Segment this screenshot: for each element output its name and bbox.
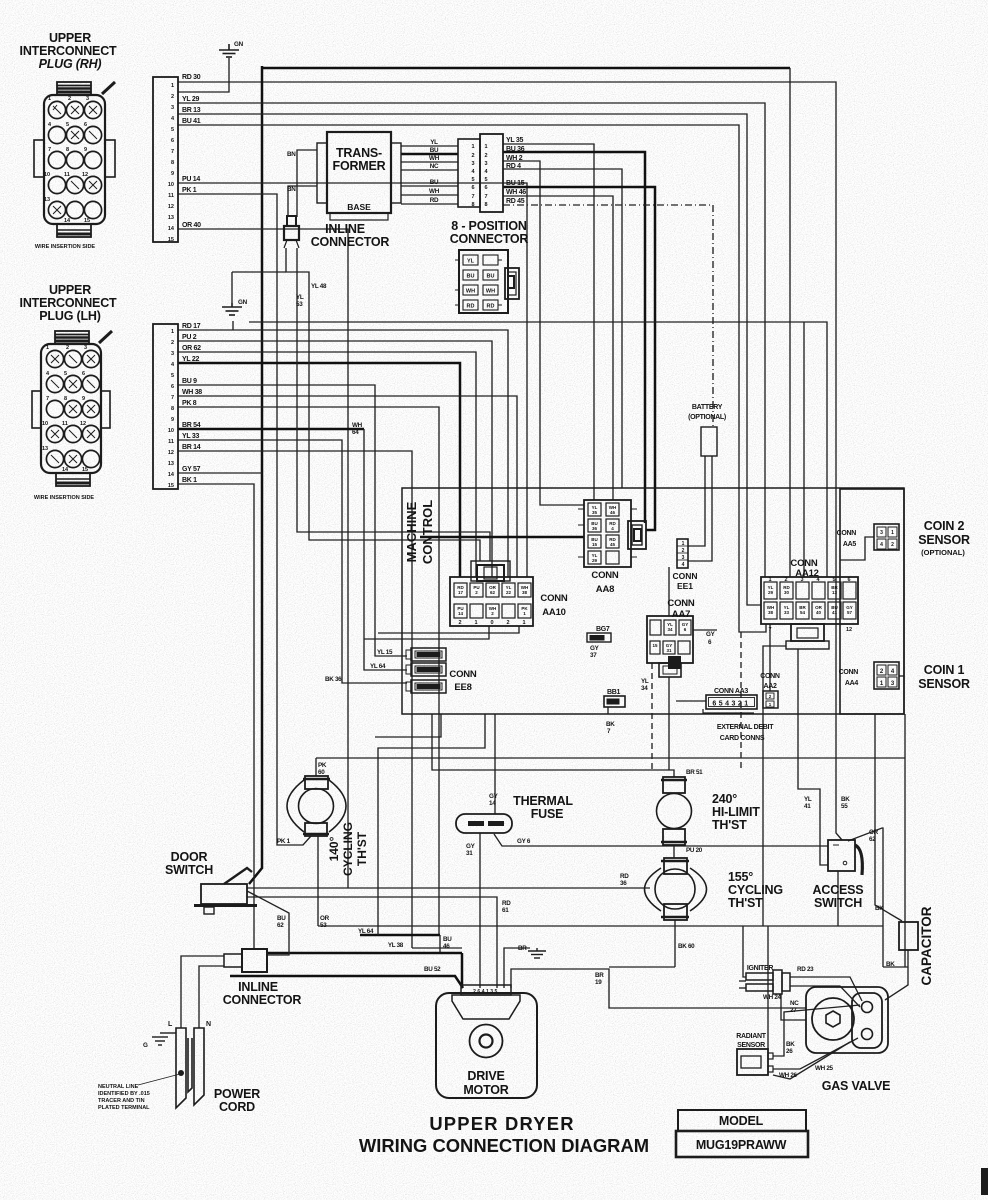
svg-text:2: 2 — [891, 542, 894, 548]
svg-text:EE1: EE1 — [677, 581, 693, 591]
plug LH contact marks — [51, 355, 95, 463]
svg-text:2: 2 — [471, 153, 474, 159]
svg-text:11: 11 — [62, 421, 68, 427]
thermostat 140 cycling — [287, 776, 346, 836]
svg-text:WH 46: WH 46 — [506, 189, 526, 196]
svg-text:INLINE: INLINE — [238, 980, 278, 994]
wire ground stub LH — [232, 321, 234, 330]
svg-text:UPPER: UPPER — [49, 31, 91, 45]
svg-text:64: 64 — [352, 429, 359, 436]
svg-text:7: 7 — [46, 396, 49, 402]
svg-text:14: 14 — [64, 218, 71, 224]
svg-text:BK 60: BK 60 — [678, 943, 695, 950]
svg-text:654321: 654321 — [712, 701, 750, 708]
wire BK55 — [836, 714, 842, 840]
wire xfmr YL — [401, 145, 458, 147]
svg-text:2: 2 — [68, 96, 71, 102]
plug RH top tab — [57, 82, 91, 95]
connector EE8 bar1 — [406, 648, 446, 661]
black mark right edge — [981, 1168, 988, 1195]
wire PK1 — [178, 194, 311, 845]
svg-text:1: 1 — [474, 620, 477, 626]
neutral note — [98, 1084, 150, 1111]
svg-text:(OPTIONAL): (OPTIONAL) — [688, 414, 726, 421]
svg-text:13: 13 — [42, 446, 48, 452]
wire radiant B — [773, 1038, 858, 1069]
connector AA8 body — [584, 500, 631, 567]
svg-text:8: 8 — [171, 160, 174, 166]
wire H758 — [316, 757, 905, 759]
svg-text:AA5: AA5 — [843, 541, 857, 548]
svg-text:GN: GN — [234, 41, 244, 48]
svg-text:WIRE INSERTION SIDE: WIRE INSERTION SIDE — [35, 244, 96, 250]
power cord neutral dot — [178, 1070, 184, 1076]
wire AA12 latch left chain — [763, 646, 786, 926]
svg-text:BU: BU — [430, 147, 439, 154]
svg-text:CONN: CONN — [591, 570, 619, 581]
svg-text:GY: GY — [466, 843, 476, 850]
ground top — [219, 44, 239, 57]
svg-text:NC: NC — [790, 1000, 799, 1007]
AA7 cells — [650, 620, 691, 654]
8pos detail side ticks — [455, 260, 502, 305]
svg-text:0: 0 — [490, 620, 493, 626]
8pos pin digits — [471, 144, 488, 208]
svg-text:29: 29 — [592, 558, 598, 563]
svg-text:GY: GY — [590, 645, 600, 652]
svg-text:PK 1: PK 1 — [277, 838, 291, 845]
svg-text:SWITCH: SWITCH — [814, 896, 862, 910]
plug RH body — [44, 95, 105, 224]
AA10 cells row1 — [454, 583, 531, 597]
svg-text:EXTERNAL DEBIT: EXTERNAL DEBIT — [717, 724, 774, 731]
wire NC27 — [781, 994, 806, 1020]
svg-text:GY: GY — [706, 631, 716, 638]
svg-text:CARD CONNS: CARD CONNS — [720, 735, 765, 742]
svg-text:YL: YL — [641, 678, 649, 685]
svg-text:BN: BN — [287, 151, 296, 158]
svg-text:38: 38 — [768, 610, 774, 615]
svg-text:TH'ST: TH'ST — [728, 896, 763, 910]
wire OR62 — [178, 352, 476, 577]
plug RH left ear — [34, 140, 44, 177]
svg-text:4: 4 — [682, 562, 685, 568]
wire BR19 — [511, 969, 806, 1008]
svg-text:41: 41 — [832, 610, 838, 615]
AA7 black key — [668, 656, 681, 669]
svg-text:BU: BU — [487, 274, 495, 280]
AA8 cells — [588, 503, 619, 564]
svg-text:AA8: AA8 — [596, 584, 614, 595]
plug RH locator pin — [102, 82, 115, 94]
svg-text:CONN: CONN — [540, 593, 568, 604]
svg-text:GY 57: GY 57 — [182, 466, 201, 473]
svg-text:19: 19 — [595, 979, 602, 986]
svg-text:41: 41 — [804, 803, 811, 810]
svg-text:11: 11 — [168, 193, 174, 199]
svg-text:7: 7 — [48, 147, 51, 153]
svg-text:YL 15: YL 15 — [377, 649, 393, 656]
svg-text:7: 7 — [484, 194, 487, 200]
svg-text:22: 22 — [506, 590, 512, 595]
svg-text:YL: YL — [430, 139, 438, 146]
svg-text:5: 5 — [484, 177, 487, 183]
svg-text:6: 6 — [471, 185, 474, 191]
wire H897 — [247, 897, 497, 988]
svg-text:BU: BU — [277, 915, 286, 922]
connector AA12 body — [761, 577, 858, 624]
svg-text:54: 54 — [800, 610, 806, 615]
AA12 cells row1 — [764, 582, 856, 599]
svg-text:38: 38 — [522, 590, 528, 595]
svg-text:1: 1 — [171, 329, 174, 335]
svg-text:8: 8 — [471, 202, 474, 208]
svg-text:BU 36: BU 36 — [506, 146, 525, 153]
inline connector top body — [284, 216, 299, 248]
wire xfmr BU — [401, 153, 458, 156]
svg-text:12: 12 — [80, 421, 86, 427]
svg-text:1: 1 — [471, 144, 474, 150]
svg-text:INTERCONNECT: INTERCONNECT — [20, 44, 117, 58]
wire WH46 — [503, 196, 613, 500]
svg-text:OR 62: OR 62 — [182, 345, 201, 352]
gas valve body — [806, 987, 888, 1053]
svg-text:IGNITER: IGNITER — [747, 965, 774, 972]
wire PU2 — [178, 341, 492, 577]
svg-text:PK 1: PK 1 — [182, 187, 197, 194]
svg-text:30: 30 — [784, 590, 790, 595]
wire igniter B — [739, 980, 746, 982]
power cord blade L — [176, 1028, 204, 1108]
wire H926 — [318, 925, 883, 927]
svg-text:8: 8 — [64, 396, 67, 402]
svg-text:RD 4: RD 4 — [506, 163, 521, 170]
svg-text:WH: WH — [486, 289, 495, 295]
svg-text:BR: BR — [518, 945, 527, 952]
svg-text:34: 34 — [667, 627, 673, 632]
svg-text:15: 15 — [168, 483, 174, 489]
svg-text:10: 10 — [168, 182, 174, 188]
svg-text:BK 36: BK 36 — [325, 676, 342, 683]
svg-text:14: 14 — [489, 800, 496, 807]
svg-text:264135: 264135 — [473, 989, 499, 995]
svg-text:BU 9: BU 9 — [182, 378, 197, 385]
AA7 cell marks — [652, 622, 688, 653]
gas valve coil — [812, 998, 854, 1040]
svg-text:BR 13: BR 13 — [182, 107, 201, 114]
svg-text:46: 46 — [443, 943, 450, 950]
svg-text:14: 14 — [62, 467, 69, 473]
svg-text:15: 15 — [652, 643, 658, 648]
svg-text:COIN 2: COIN 2 — [924, 519, 965, 533]
label upper interconnect plug LH — [20, 283, 117, 323]
svg-text:BK: BK — [606, 721, 615, 728]
wire BK junction — [883, 966, 908, 968]
svg-text:POWER: POWER — [214, 1087, 260, 1101]
wire cord A — [181, 956, 224, 1028]
svg-text:TRACER AND TIN: TRACER AND TIN — [98, 1098, 145, 1104]
wire dashed ign — [740, 632, 742, 770]
machine control box — [402, 488, 904, 714]
MACHINE CONTROL — [325, 404, 970, 742]
transformer T1 body — [327, 132, 391, 213]
svg-text:FORMER: FORMER — [333, 159, 386, 173]
svg-text:15: 15 — [592, 542, 598, 547]
plug LH body — [41, 344, 101, 473]
wire xfmr BU2 — [401, 185, 458, 187]
svg-text:2: 2 — [682, 548, 685, 554]
svg-text:5: 5 — [171, 127, 174, 133]
svg-text:9: 9 — [171, 171, 174, 177]
wire xfmr WH — [401, 161, 458, 163]
plug RH pin digits — [44, 96, 90, 224]
svg-text:5: 5 — [171, 373, 174, 379]
svg-text:2: 2 — [484, 153, 487, 159]
svg-text:BR 54: BR 54 — [182, 422, 201, 429]
AA8 right latch — [628, 521, 646, 549]
strip LH wire labels — [182, 323, 202, 484]
connector EE8 bar2 — [406, 663, 446, 676]
svg-text:BU 15: BU 15 — [506, 180, 525, 187]
wire AA4 stub — [899, 675, 904, 677]
svg-text:1: 1 — [522, 620, 525, 626]
wire YL33 — [178, 440, 407, 683]
plug RH bottom tab — [57, 224, 91, 237]
wire YL29 — [178, 103, 765, 577]
AA7 bottom latch — [659, 663, 681, 677]
terminal strip LH — [153, 324, 178, 489]
svg-text:CONN: CONN — [839, 669, 859, 676]
svg-text:BN: BN — [287, 186, 296, 193]
svg-text:3: 3 — [484, 161, 487, 167]
access switch — [828, 840, 862, 875]
connector 8pos right shell — [480, 134, 503, 212]
svg-text:YL: YL — [467, 259, 475, 265]
thermal fuse body — [456, 814, 512, 833]
motor ground — [528, 948, 546, 958]
thermostat 240 hi-limit — [657, 777, 692, 845]
plug LH left ear — [32, 391, 41, 428]
svg-text:7: 7 — [768, 627, 771, 633]
svg-text:CONN: CONN — [760, 673, 780, 680]
svg-text:SENSOR: SENSOR — [918, 533, 970, 547]
svg-text:SENSOR: SENSOR — [737, 1042, 765, 1049]
wire RD4 — [503, 169, 622, 488]
svg-text:26: 26 — [786, 1048, 793, 1055]
svg-text:IDENTIFIED BY .015: IDENTIFIED BY .015 — [98, 1091, 150, 1097]
svg-text:CORD: CORD — [219, 1100, 255, 1114]
wire AA8 left bold — [420, 536, 584, 539]
svg-text:11: 11 — [64, 172, 70, 178]
svg-text:INLINE: INLINE — [325, 222, 365, 236]
svg-text:RD: RD — [430, 197, 439, 204]
svg-text:6: 6 — [847, 577, 850, 583]
svg-text:TH'ST: TH'ST — [712, 818, 747, 832]
svg-text:DOOR: DOOR — [171, 850, 208, 864]
svg-text:GN: GN — [238, 299, 248, 306]
AA10 cells row2 — [454, 604, 531, 618]
svg-text:53: 53 — [296, 301, 303, 308]
wire inline down A — [286, 248, 480, 561]
svg-text:BR 14: BR 14 — [182, 444, 201, 451]
svg-text:WH 26: WH 26 — [779, 1072, 798, 1079]
svg-text:PK 8: PK 8 — [182, 400, 197, 407]
coin box — [840, 489, 904, 714]
svg-text:BR 51: BR 51 — [686, 769, 703, 776]
drive motor hub — [470, 1025, 503, 1058]
wire BN upper — [297, 150, 317, 217]
wire ground jog LH — [232, 271, 286, 273]
wire GY6 — [693, 629, 717, 631]
strip RH wire labels — [182, 74, 201, 229]
svg-text:1: 1 — [768, 577, 771, 583]
svg-text:BU 52: BU 52 — [424, 966, 441, 973]
svg-text:YL 33: YL 33 — [182, 433, 199, 440]
wire RD17 — [178, 330, 508, 577]
svg-text:NEUTRAL LINE: NEUTRAL LINE — [98, 1084, 139, 1090]
svg-text:COIN 1: COIN 1 — [924, 663, 965, 677]
wire top trunk A — [262, 67, 790, 70]
svg-text:60: 60 — [318, 769, 325, 776]
svg-text:PLATED TERMINAL: PLATED TERMINAL — [98, 1105, 150, 1111]
svg-text:BK 1: BK 1 — [182, 477, 197, 484]
svg-text:8: 8 — [171, 406, 174, 412]
svg-text:3: 3 — [84, 345, 87, 351]
wire YL22 — [178, 363, 460, 577]
svg-text:45: 45 — [610, 542, 616, 547]
wire BR13 — [178, 114, 761, 605]
svg-text:OR: OR — [869, 829, 879, 836]
wire dashed AA7 — [651, 663, 653, 770]
svg-text:CONN: CONN — [667, 598, 695, 609]
svg-text:5: 5 — [471, 177, 474, 183]
wire access bottom — [837, 871, 839, 926]
svg-text:WH 24: WH 24 — [763, 994, 782, 1001]
wire YL64b — [360, 934, 440, 937]
svg-text:YL 48: YL 48 — [311, 283, 327, 290]
gas valve bracket — [852, 993, 882, 1048]
svg-text:CONN: CONN — [449, 669, 477, 680]
svg-text:RADIANT: RADIANT — [736, 1033, 766, 1040]
AA10 pin digits — [458, 620, 525, 626]
wire YL38 — [412, 947, 462, 949]
connector AA10 latch — [471, 561, 510, 581]
AA8 cell marks — [591, 505, 616, 563]
wire V804 — [803, 322, 805, 577]
svg-text:FUSE: FUSE — [531, 807, 564, 821]
transformer base plate — [330, 213, 388, 220]
plug LH bottom tab — [56, 473, 90, 486]
svg-text:G: G — [143, 1042, 148, 1049]
wire OR53 — [317, 836, 319, 926]
svg-text:MODEL: MODEL — [719, 1114, 764, 1128]
svg-text:BASE: BASE — [347, 202, 371, 212]
AA12 pin digits — [768, 577, 852, 633]
wire BK60b — [609, 966, 675, 968]
svg-text:WH 38: WH 38 — [182, 389, 202, 396]
strip LH pin numbers — [168, 329, 175, 489]
svg-text:WH 2: WH 2 — [506, 155, 523, 162]
svg-text:2: 2 — [66, 345, 69, 351]
wire OR40 — [178, 229, 348, 888]
svg-text:3: 3 — [171, 351, 174, 357]
svg-text:AA7: AA7 — [672, 609, 690, 620]
svg-text:RD: RD — [487, 304, 495, 310]
thermostat 155 cycling — [645, 858, 707, 920]
wire BR51 — [432, 714, 674, 777]
svg-text:14: 14 — [458, 611, 464, 616]
wire capacitor bottom — [885, 950, 908, 1000]
svg-text:CAPACITOR: CAPACITOR — [919, 906, 934, 985]
svg-text:RD: RD — [620, 873, 629, 880]
wire inline down B — [297, 248, 490, 561]
wire PK8 — [178, 407, 439, 935]
svg-text:WIRE INSERTION SIDE: WIRE INSERTION SIDE — [34, 495, 95, 501]
svg-text:BATTERY: BATTERY — [692, 404, 723, 411]
svg-text:37: 37 — [590, 652, 597, 659]
wire xfmr RD — [401, 203, 458, 205]
svg-text:PLUG (LH): PLUG (LH) — [39, 309, 100, 323]
svg-text:YL 35: YL 35 — [506, 137, 523, 144]
wire AA5 — [840, 537, 874, 560]
plug LH contacts — [46, 350, 99, 467]
svg-text:RD 45: RD 45 — [506, 198, 525, 205]
svg-text:3: 3 — [471, 161, 474, 167]
wire BU36 — [503, 152, 645, 523]
wire trunk H322 — [249, 322, 827, 577]
svg-text:WH: WH — [429, 188, 440, 195]
connector EE8 bar3 — [406, 680, 446, 693]
svg-text:31: 31 — [466, 850, 473, 857]
svg-text:14: 14 — [168, 226, 175, 232]
svg-text:35: 35 — [592, 510, 598, 515]
wire WH2 — [503, 161, 584, 505]
wire door diag — [247, 891, 289, 955]
svg-text:ACCESS: ACCESS — [813, 883, 864, 897]
wire battery A — [688, 456, 705, 546]
svg-text:1: 1 — [682, 541, 685, 547]
wire RD45 dashed — [503, 205, 713, 427]
8pos detail cells — [463, 255, 498, 310]
svg-text:WH: WH — [352, 422, 363, 429]
wire xfmr WH2 — [401, 194, 458, 196]
svg-text:BU: BU — [430, 179, 439, 186]
wire OR62 diag — [848, 828, 883, 967]
svg-text:RD: RD — [502, 900, 511, 907]
svg-text:240°: 240° — [712, 792, 737, 806]
svg-text:7: 7 — [471, 194, 474, 200]
svg-text:10: 10 — [42, 421, 48, 427]
svg-text:WIRING CONNECTION DIAGRAM: WIRING CONNECTION DIAGRAM — [359, 1135, 649, 1156]
wire BU15 — [503, 187, 655, 530]
wire right edge down — [904, 714, 906, 967]
BOTTOM — [98, 422, 988, 1195]
wire WH38 — [178, 396, 517, 577]
wire EE1 to AA7 — [668, 567, 670, 616]
wire BB1 stub — [607, 707, 609, 714]
svg-text:15: 15 — [84, 218, 90, 224]
svg-text:YL 29: YL 29 — [182, 96, 199, 103]
drive motor terminal block — [461, 985, 511, 995]
wire 140 top — [315, 758, 317, 776]
svg-text:BK: BK — [875, 905, 884, 912]
svg-text:BG7: BG7 — [596, 626, 610, 633]
svg-text:15: 15 — [168, 237, 174, 243]
wire GY14 — [494, 714, 496, 814]
strip RH pin numbers — [168, 83, 175, 243]
wire AA7 down — [668, 677, 670, 770]
wire radiant A — [773, 1005, 860, 1056]
